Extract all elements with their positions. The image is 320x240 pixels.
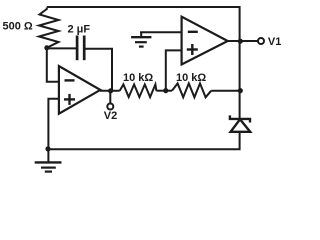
svg-text:10 kΩ: 10 kΩ	[176, 72, 206, 84]
svg-text:10 kΩ: 10 kΩ	[123, 72, 153, 84]
svg-text:500 Ω: 500 Ω	[3, 21, 33, 33]
svg-text:2 μF: 2 μF	[68, 24, 91, 36]
svg-text:V2: V2	[104, 110, 117, 122]
svg-text:V1: V1	[268, 36, 281, 48]
